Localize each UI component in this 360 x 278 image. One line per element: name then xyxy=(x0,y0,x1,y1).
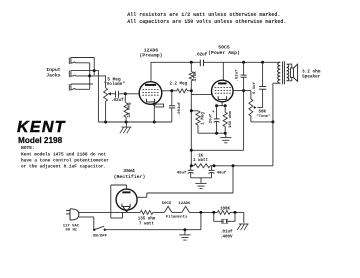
svg-text:.02uf: .02uf xyxy=(111,98,124,103)
svg-text:2.2 Meg: 2.2 Meg xyxy=(170,83,188,87)
svg-text:"Tone": "Tone" xyxy=(256,114,270,119)
svg-text:ON/OFF: ON/OFF xyxy=(93,234,108,239)
svg-text:60 Hz: 60 Hz xyxy=(65,229,77,233)
svg-text:"Volume": "Volume" xyxy=(104,82,125,87)
svg-text:.400V: .400V xyxy=(220,235,233,239)
svg-text:All capacitors are 150 volts u: All capacitors are 150 volts unless othe… xyxy=(127,19,286,25)
svg-text:12AD6: 12AD6 xyxy=(144,48,159,54)
svg-text:1 watt: 1 watt xyxy=(193,159,209,163)
svg-text:50C5: 50C5 xyxy=(218,44,230,50)
svg-text:470K: 470K xyxy=(194,71,198,82)
svg-text:15 Meg: 15 Meg xyxy=(128,102,132,118)
svg-text:Jacks: Jacks xyxy=(46,73,61,79)
svg-text:40uf: 40uf xyxy=(177,170,187,175)
svg-text:35W4: 35W4 xyxy=(123,168,135,174)
svg-text:(Power Amp): (Power Amp) xyxy=(208,50,240,56)
svg-text:50K: 50K xyxy=(259,110,267,114)
svg-text:0.1uf: 0.1uf xyxy=(252,81,257,94)
svg-text:Filaments: Filaments xyxy=(166,215,188,220)
svg-text:(Preamp): (Preamp) xyxy=(139,53,162,59)
svg-text:NOTE:: NOTE: xyxy=(21,145,35,151)
svg-text:Input: Input xyxy=(46,67,61,73)
svg-text:7 watt: 7 watt xyxy=(139,222,155,226)
svg-text:Model 2198: Model 2198 xyxy=(18,136,63,145)
svg-text:KENT: KENT xyxy=(17,119,66,136)
svg-text:Speaker: Speaker xyxy=(302,75,321,80)
svg-text:(Rectifier): (Rectifier) xyxy=(114,174,146,180)
svg-text:.001uf: .001uf xyxy=(177,101,182,116)
svg-text:Kent models 1475 and 2188 do n: Kent models 1475 and 2188 do not xyxy=(21,151,107,157)
svg-text:have a tone control potentiome: have a tone control potentiometer xyxy=(21,157,109,163)
svg-text:1 Meg: 1 Meg xyxy=(202,112,206,125)
svg-text:.01uf: .01uf xyxy=(220,229,233,234)
svg-text:100K: 100K xyxy=(220,207,231,211)
svg-text:or the adjacent 0.1uF capacito: or the adjacent 0.1uF capacitor. xyxy=(21,163,106,169)
svg-text:12AD6: 12AD6 xyxy=(178,202,191,206)
svg-text:135 ohm: 135 ohm xyxy=(138,217,156,222)
svg-text:40uf: 40uf xyxy=(217,170,227,175)
svg-text:150 ohm: 150 ohm xyxy=(228,111,233,128)
svg-text:+: + xyxy=(212,111,215,115)
svg-text:.02uf: .02uf xyxy=(234,69,239,82)
svg-text:All resistors are 1/2 watt unl: All resistors are 1/2 watt unless otherw… xyxy=(127,12,280,18)
svg-text:.02uf: .02uf xyxy=(195,53,208,58)
svg-text:50C5: 50C5 xyxy=(162,202,172,206)
svg-text:1K: 1K xyxy=(198,155,204,159)
